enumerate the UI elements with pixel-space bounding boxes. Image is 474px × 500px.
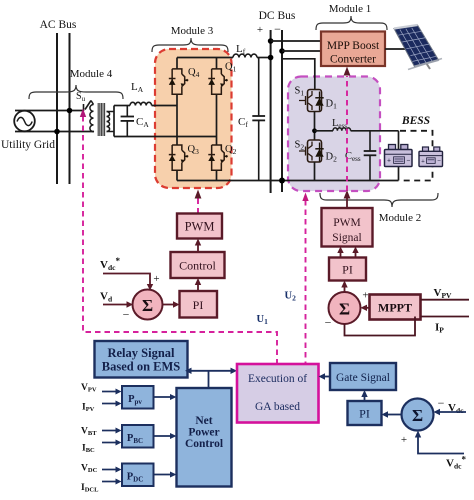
brace Module 4 [29, 85, 123, 99]
transistor Q1 [208, 69, 228, 94]
brace Module 3 [152, 38, 228, 52]
svg-text:Signal: Signal [332, 232, 361, 244]
svg-text:−: − [274, 22, 281, 36]
BESS dashed extension box [400, 131, 433, 181]
svg-text:Relay Signal: Relay Signal [107, 346, 175, 360]
arrows PI to PWM Signal [340, 253, 342, 258]
svg-text:−: − [437, 158, 441, 165]
battery B2 [419, 147, 443, 167]
AC source utility grid [14, 111, 35, 132]
svg-text:Net: Net [195, 415, 212, 427]
brace Module 1 [316, 16, 387, 30]
node bus2 [279, 48, 285, 54]
summer sigma middle [329, 292, 361, 324]
svg-text:Σ: Σ [412, 406, 423, 425]
svg-text:Σ: Σ [142, 296, 153, 315]
svg-text:+: + [401, 434, 407, 446]
wire bottom to bridge right leg [114, 136, 217, 138]
block PWM [177, 214, 222, 239]
inductor Less [315, 130, 334, 132]
node bus1 top [268, 38, 274, 44]
module 2 box [288, 77, 380, 192]
svg-text:MPPT: MPPT [378, 301, 412, 315]
svg-text:MPP Boost: MPP Boost [327, 40, 380, 52]
wire AC bus line 2 [69, 33, 71, 184]
block MPP Boost Converter U-M1 [321, 32, 385, 67]
wire S1 to S2 [314, 112, 316, 141]
svg-text:Gate Signal: Gate Signal [336, 372, 390, 384]
svg-text:−: − [123, 308, 130, 322]
block Relay Signal Based on EMS [95, 341, 188, 378]
wire Less to BESS [351, 130, 399, 132]
arrow Control to PWM [197, 245, 199, 252]
wire Vdc* to sigma [103, 274, 150, 285]
svg-text:Based on EMS: Based on EMS [102, 360, 181, 374]
wire Vdc to sigma blue [440, 411, 466, 413]
transistor S1 [299, 90, 322, 112]
wire bus to MPP bottom [282, 50, 321, 52]
arrow PI to Control [197, 285, 199, 292]
dashed U1 line [83, 116, 277, 364]
svg-text:Execution of: Execution of [248, 373, 307, 385]
wire to LA [114, 105, 130, 107]
diode D1 [315, 98, 323, 106]
node on AC bus left [54, 129, 60, 135]
wire Vdc* to sigma blue [418, 437, 464, 454]
wire secondary vertical [113, 106, 115, 137]
arrow sigma to PI right [344, 287, 346, 292]
wire Vd to sigma [103, 304, 127, 306]
block PWM Signal [322, 208, 373, 247]
module 3 box [155, 49, 232, 188]
wire grid bottom [15, 131, 94, 133]
svg-text:PI: PI [342, 263, 353, 277]
transistor Q2 [208, 145, 228, 170]
wire bridge right leg [216, 58, 218, 69]
brace Module 2 [320, 193, 438, 207]
svg-text:DC Bus: DC Bus [259, 10, 296, 22]
arrow Gate Signal to Execution [325, 376, 330, 378]
wire AC bus line 1 [56, 33, 58, 184]
block Execution of GA based [237, 364, 319, 423]
block Ppv [122, 386, 154, 409]
transistor S2 [299, 140, 322, 162]
arrows inputs to PBC [102, 430, 116, 432]
svg-text:GA based: GA based [255, 401, 300, 413]
wire Lf to bus [257, 57, 271, 59]
svg-text:−: − [438, 396, 445, 410]
svg-text:Converter: Converter [330, 54, 376, 66]
transistor Q3 [169, 145, 189, 170]
wire VPV input [421, 299, 470, 301]
dashed U2 line [305, 200, 307, 364]
svg-text:PWM: PWM [185, 220, 215, 234]
wire IP input [421, 316, 470, 318]
block Control [171, 252, 225, 278]
battery B1 [385, 145, 413, 167]
capacitor Cess [369, 131, 371, 151]
svg-text:Power: Power [188, 427, 219, 439]
arrows inputs to Ppv [102, 391, 116, 393]
inductor LA [130, 102, 152, 105]
svg-text:−: − [325, 316, 332, 330]
block Gate Signal [330, 363, 396, 390]
svg-text:Control: Control [179, 259, 216, 273]
dashed gate line to module 3 [197, 198, 199, 214]
svg-text:−: − [407, 157, 411, 165]
arrow PWM Signal to module 2 [346, 198, 348, 208]
solar PV panel [394, 25, 442, 70]
arrow Ppv to NPC [154, 396, 171, 398]
arrows inputs to PDC [102, 469, 116, 471]
node on AC bus right [67, 108, 73, 114]
svg-text:PWM: PWM [333, 217, 360, 229]
svg-text:PI: PI [359, 407, 370, 421]
summer sigma left [133, 290, 163, 320]
wire junction to Net Power Control [208, 371, 210, 387]
arrow sigma to PI blue [388, 414, 401, 416]
svg-text:BESS: BESS [401, 115, 430, 127]
svg-text:+: + [362, 290, 368, 302]
wire bridge top rail [177, 57, 233, 59]
block PDC [122, 464, 154, 487]
svg-text:Control: Control [185, 438, 223, 450]
svg-text:+: + [153, 273, 159, 285]
wire DC bus line 1 [270, 30, 272, 193]
wire bridge bottom rail [177, 180, 399, 182]
block PI left [180, 291, 218, 318]
arrow PI to Gate Signal [364, 397, 366, 402]
block PI right pink [329, 258, 366, 281]
svg-text:+: + [387, 157, 391, 165]
svg-text:Module 3: Module 3 [171, 25, 214, 37]
svg-text:Module 1: Module 1 [329, 3, 371, 15]
block PBC [122, 425, 154, 448]
wire grid top [15, 110, 84, 112]
svg-text:PI: PI [193, 298, 204, 312]
diode D2 [315, 149, 323, 157]
wire MPP to panel [385, 48, 405, 50]
transistor Q4 [169, 69, 189, 94]
inductor Lf [233, 54, 257, 57]
capacitor CA [126, 106, 128, 117]
arrow Relay to Execution both ways [189, 370, 233, 372]
svg-text:Utility Grid: Utility Grid [1, 139, 55, 151]
block MPPT [370, 295, 421, 320]
wire LA to bridge [152, 105, 177, 107]
node bus1 Lf [268, 55, 274, 61]
dashed gate line to MPP [346, 76, 348, 191]
wire IP feedback to sigma [345, 317, 416, 336]
arrow PBC to NPC [154, 435, 171, 437]
svg-text:+: + [421, 158, 425, 165]
wire bus to MPP top [271, 40, 321, 42]
svg-text:Σ: Σ [339, 300, 350, 319]
summer sigma blue [402, 399, 434, 431]
transformer T1 [90, 101, 114, 132]
svg-text:Module 2: Module 2 [379, 212, 421, 224]
block Net Power Control [177, 388, 232, 487]
arrow sigma to PI [163, 304, 174, 306]
wire bridge left leg [176, 58, 178, 69]
arrow MPPT to sigma [367, 307, 370, 309]
capacitor Cf [258, 58, 260, 117]
wire DC bus line 2 [281, 30, 283, 192]
svg-text:+: + [257, 24, 263, 36]
arrow PDC to NPC [154, 474, 171, 476]
block PI blue [348, 401, 382, 425]
node bus2 bottom rail [279, 178, 285, 184]
svg-text:Module 4: Module 4 [70, 68, 113, 80]
wire BESS right vertical [398, 131, 400, 181]
wire bus to S1 [282, 59, 315, 90]
wire S2 to bottom rail [314, 162, 316, 181]
node Less tap [312, 128, 317, 133]
svg-text:AC Bus: AC Bus [40, 19, 77, 31]
